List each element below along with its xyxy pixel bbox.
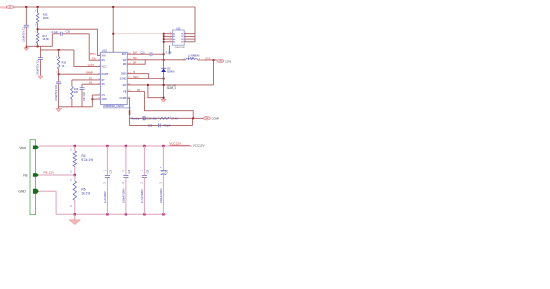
capacitor C20 [56,82,61,84]
svg-text:EN: EN [92,59,96,61]
svg-text:FB_12V: FB_12V [43,170,54,174]
svg-text:B2: B2 [181,36,183,38]
svg-text:Vout: Vout [19,146,26,150]
svg-text:FB: FB [137,90,140,92]
svg-text:U15: U15 [102,48,107,52]
svg-text:EN: EN [102,60,106,62]
U16 left bus [163,34,165,55]
svg-text:VCC12V: VCC12V [193,143,205,147]
svg-text:100nF/100V: 100nF/100V [121,188,125,203]
svg-text:C5: C5 [146,170,150,174]
svg-text:B1: B1 [181,34,183,36]
wire ISEN row 13 [127,74,148,79]
resistor R5 [74,175,76,181]
svg-text:SGND: SGND [120,79,127,81]
svg-text:165K: 165K [43,17,49,20]
svg-text:A3: A3 [173,38,175,41]
svg-text:12V0: 12V0 [225,60,231,63]
wire Vout rail VCC12V [39,145,192,147]
connector pin FB [33,173,39,177]
op-amp controller U15 box [101,52,128,104]
svg-text:C6: C6 [165,170,169,174]
svg-text:BST: BST [133,53,138,55]
RC comp row2 [130,118,193,125]
svg-text:27.4K: 27.4K [171,117,178,120]
wire SW row 15 [127,59,163,61]
svg-text:Rcomp: Rcomp [131,117,140,120]
svg-text:B4: B4 [181,42,183,44]
svg-text:FB: FB [123,92,126,94]
svg-text:VCC5: VCC5 [88,64,95,67]
svg-text:C3: C3 [109,170,113,174]
capacitor C2 [39,50,41,58]
svg-text:470pF: 470pF [163,124,171,127]
svg-text:SS: SS [102,84,106,86]
svg-text:A4: A4 [173,41,175,44]
capacitor C6 [162,146,164,171]
resistor R19 [71,80,73,87]
svg-text:DR: DR [133,63,137,65]
svg-text:C25: C25 [148,124,153,127]
svg-text:100nF/50V C20: 100nF/50V C20 [56,84,58,101]
resistor R15 [37,7,39,13]
svg-text:VIN: VIN [102,55,106,57]
svg-text:10K: 10K [74,91,79,94]
svg-text:L2 NR8040: L2 NR8040 [188,55,200,57]
wire VIN top pin [112,7,114,52]
svg-text:GND: GND [18,190,26,194]
ground at C2 [38,76,43,79]
wire CS pin [92,94,100,96]
wire VIN to U16 bus (pale) [113,33,164,35]
connector pin Vout [33,146,39,150]
wire divider to UVLO [38,29,101,55]
ground left rail [58,107,60,109]
wire top VIN rail [14,7,195,42]
svg-text:COMP: COMP [119,98,126,100]
capacitor C5 [143,146,145,175]
svg-text:16.9K: 16.9K [43,38,50,41]
svg-text:RAMP: RAMP [102,73,109,76]
svg-text:FB: FB [206,118,208,120]
connector pin GND [33,189,39,194]
svg-text:RT: RT [89,77,93,80]
svg-text:U16: U16 [176,27,181,30]
wire C19 to EN pin [89,34,100,60]
U16 left stubs [169,33,172,35]
resistor comp [160,117,170,119]
capacitor C19 row [52,33,60,35]
capacitor C1 [25,7,27,25]
svg-text:560: 560 [153,117,158,120]
resistor R18 [58,50,60,57]
svg-text:12VS: 12VS [205,58,211,60]
svg-text:A1: A1 [173,33,175,36]
svg-text:C4: C4 [127,170,131,174]
ground at C1 [25,46,27,48]
wire COMP row 9 [127,98,129,125]
wire C1 bottom rail [26,45,52,47]
wire GND pin [92,98,100,100]
svg-text:A2: A2 [173,35,175,38]
svg-text:COMP: COMP [212,118,220,121]
svg-text:P5V0: P5V0 [90,54,96,56]
wire BST row + capacitor C21 [127,53,149,55]
svg-text:9.1k 1%: 9.1k 1% [81,158,93,162]
svg-text:DR: DR [123,64,127,66]
wire SGND row 12 [127,78,163,80]
svg-text:ISEN: ISEN [121,74,127,76]
svg-text:B340A: B340A [167,71,175,74]
port COMP [203,117,210,120]
U16 right stubs [184,33,195,35]
ground at diode [163,98,165,99]
svg-text:1K: 1K [62,65,65,68]
svg-text:C19: C19 [66,31,71,34]
wire GND [39,191,56,214]
wire C19 left leg [51,34,53,47]
svg-text:C21: C21 [141,53,146,55]
wire SW feedback up [213,60,215,85]
svg-text:1uF/100V: 1uF/100V [103,191,107,203]
svg-text:GND: GND [102,99,107,101]
wire L2 to port [198,59,217,61]
svg-text:2.2K: 2.2K [147,117,152,120]
svg-text:ISEN: ISEN [133,77,139,79]
wire rail to VCC pin [74,50,101,67]
IC U16 box [172,30,184,45]
wire pgnd branch [148,85,164,98]
inductor L2 [164,59,186,61]
svg-text:100nF/50V C1: 100nF/50V C1 [24,26,26,42]
node RAMP [58,73,60,75]
svg-text:100nF/50V C2: 100nF/50V C2 [38,59,40,75]
svg-text:BST: BST [122,54,127,56]
capacitor C25 [158,123,160,127]
svg-text:B3: B3 [181,39,183,41]
wire FB row 10 [127,92,193,119]
wire RT pin [72,79,101,81]
capacitor comp pol [143,117,146,120]
wire bottom gnd rail [56,213,166,215]
wire RAMP to pin [59,73,101,75]
port 12V [217,59,224,62]
svg-text:R15: R15 [43,14,48,17]
capacitor C3 [106,146,108,175]
svg-text:4.7uF/100V: 4.7uF/100V [140,189,144,203]
svg-text:4.7uH: 4.7uH [188,58,194,60]
U16 bottom stub [169,45,171,54]
node junction at C1 top [25,6,27,8]
wire SW row 11 long [127,84,213,86]
svg-text:CSD17539: CSD17539 [175,47,186,49]
wire FB [39,174,75,176]
capacitor C22 [81,84,83,87]
node junction at U15 VIN feed [112,6,114,8]
resistor R17 [36,33,39,43]
svg-text:CS: CS [102,95,106,97]
RC comp row1 [130,117,204,119]
node divider mid [37,28,39,30]
connector J green [30,140,36,215]
diode D5 [163,54,165,98]
capacitor C4 [125,146,127,175]
svg-text:0.1uF: 0.1uF [52,31,59,34]
svg-text:0.1uF: 0.1uF [166,53,172,55]
node junction at R15 top [37,6,39,8]
svg-text:RAMP: RAMP [86,72,93,75]
svg-text:1k 1%: 1k 1% [81,192,90,196]
wire DR row 14 joins SW [127,60,145,64]
wire left gnd rail [59,106,93,108]
wire mid rail y50 [40,46,74,50]
ground lower [74,214,76,219]
svg-text:VCC12V: VCC12V [169,141,181,145]
svg-text:VCC: VCC [102,66,107,68]
resistor R4 [74,146,76,151]
svg-text:NetD5_2: NetD5_2 [167,87,177,90]
svg-text:1nF C22: 1nF C22 [84,91,86,101]
svg-text:220uF/100V: 220uF/100V [159,188,163,203]
svg-text:SS: SS [89,82,93,85]
wire SS pin [82,83,101,85]
